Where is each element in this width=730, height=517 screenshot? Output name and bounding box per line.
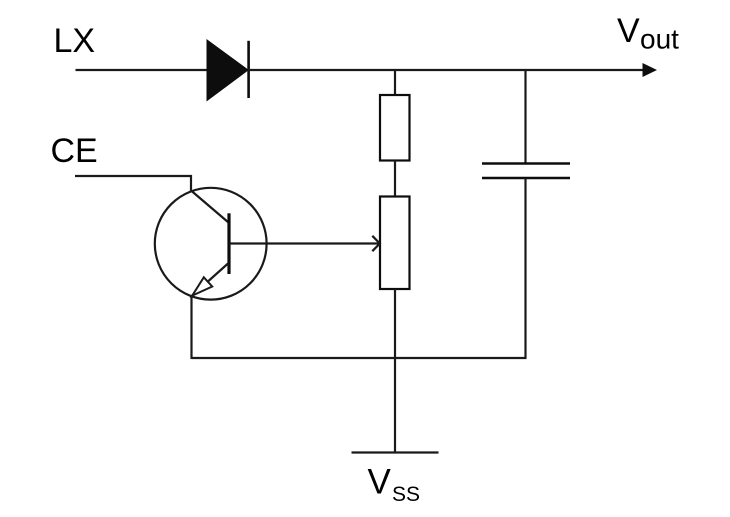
resistor R2 (controlled element) [380, 197, 410, 290]
transistor Q1 base bar [227, 213, 230, 274]
collector arrowhead barbs [372, 236, 380, 251]
wire top node to resistor R1 [394, 70, 396, 96]
svg-text:out: out [640, 24, 679, 55]
capacitor C1 bottom plate [482, 177, 570, 179]
wire top node to capacitor C1 [524, 70, 526, 164]
transistor Q1 emitter open arrowhead [192, 277, 212, 295]
wire bottom net [192, 357, 527, 359]
wire R1 to R2 [394, 161, 396, 198]
transistor Q1 emitter lead diagonal [192, 264, 228, 296]
svg-text:LX: LX [54, 22, 96, 60]
wire R2 bottom to ground [394, 289, 396, 452]
diode D1 anode triangle [207, 40, 248, 101]
svg-text:CE: CE [51, 132, 98, 170]
output arrowhead [643, 63, 658, 77]
wire CE to transistor base [75, 176, 191, 191]
svg-text:SS: SS [392, 483, 420, 506]
wire capacitor C1 to bottom net [524, 178, 526, 359]
diode D1 cathode bar [247, 41, 250, 98]
wire emitter to bottom net [190, 296, 192, 360]
svg-text:V: V [368, 463, 392, 502]
wire LX to diode anode [76, 69, 208, 71]
resistor R1 [380, 95, 410, 161]
transistor Q1 body circle [155, 188, 267, 300]
transistor Q1 base lead diagonal [191, 191, 229, 223]
transistor Q1 collector lead with arrow into R2 [229, 242, 380, 244]
svg-text:V: V [617, 12, 640, 50]
ground bar Vss [352, 451, 439, 453]
capacitor C1 top plate [482, 162, 570, 164]
wire diode cathode to output arrow [248, 69, 645, 71]
